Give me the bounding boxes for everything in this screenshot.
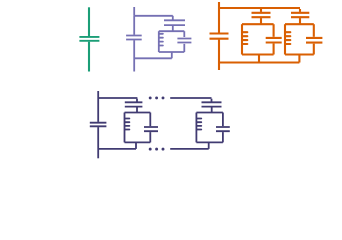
inductor L3a vertical: [241, 24, 243, 54]
node ellipsis dots top: [149, 96, 165, 99]
wire loop 2 bottom: [196, 141, 223, 143]
wire bottom segment 1: [98, 148, 136, 150]
wire loop 2 right upper: [222, 113, 224, 127]
inductor L4b bumps: [197, 119, 201, 130]
wire loop 2 right lower: [313, 44, 315, 55]
wire jog to C3b: [260, 9, 262, 12]
capacitor C3a plates: [210, 34, 229, 39]
wire jog to series cap: [172, 16, 174, 20]
wire cap to loop: [172, 26, 174, 31]
wire loop 2 stub down: [298, 55, 300, 63]
wire left branch upper: [133, 16, 135, 35]
circuit 3: two-resonator network (orange): [210, 2, 323, 70]
wire C4d to loop 2: [211, 107, 213, 112]
wire loop 1 top: [242, 23, 274, 25]
wire loop right lower: [183, 44, 185, 52]
wire bottom segment 2: [170, 148, 209, 150]
capacitor C4a plates: [90, 123, 107, 127]
inductor L2 vertical: [158, 31, 160, 52]
wire loop 1 bottom: [242, 53, 274, 55]
wire jog to C4b: [136, 99, 138, 102]
capacitor C2b plates: [177, 39, 191, 43]
inductor L4b vertical: [195, 113, 197, 143]
wire loop 2 bottom: [285, 53, 314, 55]
wire loop 1 right upper: [149, 113, 151, 127]
wire loop 2 right lower: [222, 132, 224, 142]
capacitor C2a series plates: [164, 20, 185, 25]
wire top segment 2: [170, 97, 211, 99]
wire C3b to loop 1: [260, 18, 262, 24]
wire loop 1 stub down: [258, 55, 260, 63]
wire loop bottom: [159, 51, 185, 53]
wire bottom: [134, 57, 172, 59]
wire top lead: [88, 7, 90, 36]
node top terminal stub: [218, 2, 220, 8]
node top terminal stub: [97, 91, 99, 98]
wire bottom lead: [88, 42, 90, 72]
wire loop 2 stub down: [208, 142, 210, 149]
capacitor C3b series plates: [252, 13, 271, 17]
capacitor C1 (green single capacitor): [79, 7, 99, 71]
wire loop 1 right lower: [149, 132, 151, 142]
wire loop stub down: [171, 52, 173, 58]
wire loop 1 bottom: [125, 141, 151, 143]
capacitor C3e plates: [306, 38, 322, 43]
capacitor C3d series plates: [291, 13, 309, 17]
wire C3d to loop 2: [299, 18, 301, 24]
wire loop 1 top: [125, 112, 151, 114]
capacitor C4b series plates: [125, 102, 143, 106]
wire loop 2 right upper: [313, 24, 315, 37]
wire left branch lower + bottom stub: [218, 40, 220, 70]
capacitor C1 plates: [79, 37, 99, 41]
wire loop 1 stub down: [135, 142, 137, 149]
wire top: [134, 15, 173, 17]
inductor L3b bumps: [286, 32, 291, 44]
capacitor C4c plates: [144, 127, 158, 131]
wire left branch lower + bottom terminal stub: [133, 40, 135, 71]
capacitor C4e plates: [216, 127, 230, 131]
circuit 2: capacitor-shunted junction (purple): [126, 7, 191, 72]
wire left branch lower + bottom stub: [97, 127, 99, 158]
wire jog to C4d: [211, 99, 213, 102]
wire bottom: [219, 61, 299, 63]
wire loop right upper: [183, 31, 185, 37]
capacitor C3c plates: [266, 38, 282, 43]
inductor L2 bumps: [159, 34, 163, 46]
wire left branch upper: [218, 8, 220, 33]
capacitor C2c plates: [126, 36, 142, 40]
wire top: [219, 7, 300, 9]
wire top segment 1: [98, 97, 137, 99]
wire loop 2 top: [285, 23, 314, 25]
wire C4b to loop 1: [136, 107, 138, 112]
wire loop 1 right lower: [273, 44, 275, 55]
node top terminal stub: [133, 7, 135, 16]
node ellipsis dots bottom: [149, 148, 165, 151]
inductor L3b vertical: [284, 24, 286, 54]
wire loop 1 right upper: [273, 24, 275, 37]
wire left branch upper: [97, 98, 99, 122]
wire loop 2 top: [196, 112, 223, 114]
inductor L4a bumps: [125, 119, 129, 130]
wire loop top: [159, 30, 185, 32]
inductor L3a bumps: [243, 32, 248, 44]
inductor L4a vertical: [124, 113, 126, 143]
capacitor C4d series plates: [202, 102, 222, 106]
wire jog to C3d: [299, 9, 301, 12]
circuit 4: chain of resonators (dark indigo): [90, 91, 230, 158]
